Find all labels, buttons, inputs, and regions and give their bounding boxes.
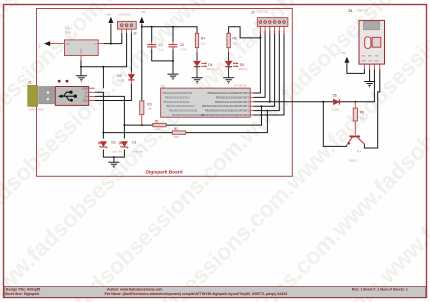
wire Z1 GND pin drop	[369, 70, 371, 82]
node D- / R2	[102, 132, 104, 134]
ground (D5)	[223, 78, 234, 84]
svg-text:Q1: Q1	[357, 149, 361, 153]
node zener ground	[113, 156, 115, 158]
ground (D4)	[192, 78, 203, 84]
svg-text:R1: R1	[155, 120, 159, 124]
svg-text:D2: D2	[112, 141, 116, 145]
wire U2 pin4 to J3 pin4	[254, 31, 275, 107]
svg-text:ATTINY85: ATTINY85	[234, 84, 247, 88]
node J3 pin3 riser	[269, 101, 271, 103]
svg-text:PB4/ADC2/CLKO/OC1B/PCINT4: PB4/ADC2/CLKO/OC1B/PCINT4	[215, 101, 250, 104]
module Z1 USB TTL	[349, 8, 385, 69]
svg-text:Vin: Vin	[107, 12, 112, 16]
wire U2 pin6 to J3 pin6	[254, 31, 285, 116]
svg-text:C2: C2	[180, 43, 184, 47]
svg-text:PB2/SCK/ADC1/USCK/SCL: PB2/SCK/ADC1/USCK/SCL	[166, 105, 196, 108]
wire J1 D+ to zener D1	[95, 96, 125, 138]
svg-text:331: 331	[201, 41, 206, 45]
svg-text:68R: 68R	[174, 135, 179, 139]
svg-text:PB2/SCK/ADC1/T0/USCK/SCL/INT0/: PB2/SCK/ADC1/T0/USCK/SCL/INT0/PCINT2	[202, 105, 250, 108]
IC U2 ATTINY85	[161, 84, 254, 118]
svg-text:Design Title: Attiny85: Design Title: Attiny85	[6, 288, 41, 292]
wire R3 bottom row to R1	[124, 124, 152, 126]
svg-text:D1: D1	[132, 141, 136, 145]
wire U1 output to J2 pin1	[104, 33, 122, 44]
svg-text:R3: R3	[147, 103, 151, 107]
capacitor C1	[147, 42, 164, 52]
svg-text:R6: R6	[360, 110, 364, 114]
svg-text:Digispark Board: Digispark Board	[146, 169, 183, 175]
svg-text:D4: D4	[208, 63, 212, 67]
node R3 bottom	[141, 124, 143, 126]
wire 5V rail horizontal to R4	[142, 27, 197, 34]
svg-text:Sheet Size: Digispark: Sheet Size: Digispark	[5, 292, 40, 296]
transistor Q1 BC547	[347, 136, 365, 163]
terminal Vin (top)	[107, 12, 114, 23]
svg-text:Author: www.fadsobsessions.com: Author: www.fadsobsessions.com	[107, 288, 162, 292]
wire 5V rail vertical to R3	[141, 24, 143, 101]
svg-text:331: 331	[233, 41, 238, 45]
wire Vin terminal drop	[110, 24, 112, 44]
diode D3	[117, 72, 135, 84]
wire R1 to U2 pin4 riser	[166, 106, 261, 125]
svg-text:Rev: 1 Sheet #: 1 Num of S: Rev: 1 Sheet #: 1 Num of Sheets: 1	[352, 288, 408, 292]
resistor R6	[353, 102, 365, 135]
wire R2 right to U2 pin5 riser	[186, 111, 267, 133]
resistor R2	[172, 127, 186, 139]
svg-text:U1: U1	[65, 26, 70, 30]
node C1 top	[151, 26, 153, 28]
svg-text:VCC: VCC	[83, 100, 88, 103]
svg-text:DIODE: DIODE	[117, 80, 125, 83]
svg-text:LED(red): LED(red)	[238, 68, 248, 71]
svg-text:RXD: RXD	[375, 61, 380, 63]
svg-text:10k: 10k	[360, 116, 365, 120]
Digispark Board sub-sheet frame	[37, 9, 293, 177]
resistor R4	[195, 33, 205, 61]
node 5V rail tap	[141, 26, 143, 28]
svg-text:CTS: CTS	[368, 61, 373, 63]
svg-text:File Name: (DartElectronics-bl: File Name: (DartElectronics-blankdevelop…	[105, 292, 288, 296]
svg-text:VI: VI	[94, 42, 97, 46]
svg-text:R5: R5	[233, 37, 237, 41]
wire J3 pin3 riser	[269, 31, 271, 102]
svg-text:BC547: BC547	[349, 159, 357, 163]
title block bar	[4, 287, 426, 298]
LED D5	[225, 61, 248, 78]
node ground rail at U1	[80, 66, 82, 68]
svg-text:PB3/ADC3/CLKI/XTAL1: PB3/ADC3/CLKI/XTAL1	[165, 96, 190, 99]
USB trident icon	[61, 92, 75, 100]
wire ground drop below zeners	[113, 157, 115, 162]
op-amp U1 voltage regulator 7805	[50, 26, 104, 61]
connector J3 CONN-6X1	[251, 9, 288, 34]
terminal 5V (top, J2)	[139, 10, 146, 23]
svg-text:DIODE: DIODE	[332, 109, 340, 112]
node R5 to J3 pin1	[259, 37, 261, 39]
svg-text:J1: J1	[28, 80, 32, 84]
svg-text:VO: VO	[66, 42, 70, 46]
svg-text:D5: D5	[240, 63, 244, 67]
svg-text:Zener 3v6: Zener 3v6	[132, 150, 143, 153]
svg-text:U2: U2	[161, 85, 166, 89]
wire node to Q1 emitter	[323, 102, 347, 147]
svg-text:0.1u: 0.1u	[159, 47, 165, 51]
terminal 5V (Z1)	[342, 51, 350, 63]
wire Z1 5V pin to terminal	[347, 63, 365, 73]
resistor R1	[153, 120, 166, 132]
svg-text:68R: 68R	[155, 128, 160, 132]
connector J1 USB CONN	[28, 80, 95, 112]
svg-text:GND: GND	[362, 61, 367, 63]
node D+ / R1	[123, 124, 125, 126]
svg-text:PB0/MOSI/DI/SDA/AIN0/OC0A/AREF: PB0/MOSI/DI/SDA/AIN0/OC0A/AREF/PCINT0	[201, 114, 250, 117]
wire C2 branches	[172, 27, 174, 74]
svg-text:PB5/ADC0/AIN0/OC1A/RESET/PCINT: PB5/ADC0/AIN0/OC1A/RESET/PCINT5	[207, 92, 249, 95]
node R1 riser	[261, 105, 263, 107]
wire zener bottoms rail	[103, 150, 124, 158]
wire D3 to J1 VCC pin	[95, 84, 132, 101]
wire J1 D- to zener D2	[95, 92, 104, 138]
svg-text:1k5: 1k5	[147, 107, 152, 111]
svg-text:PB5/ADC0/AIN0/RESET/dW: PB5/ADC0/AIN0/RESET/dW	[163, 92, 193, 95]
wire Q1 collector to Z1 RX	[364, 70, 379, 149]
svg-text:LED(green): LED(green)	[206, 68, 219, 71]
svg-text:PB3/ADC3/CLKI/OC1B/PCINT3: PB3/ADC3/CLKI/OC1B/PCINT3	[216, 96, 250, 99]
svg-text:USB TTL: USB TTL	[357, 8, 369, 12]
resistor R3	[140, 101, 152, 125]
resistor R5	[227, 33, 237, 61]
svg-text:D6: D6	[333, 93, 337, 97]
node R6 top	[354, 101, 356, 103]
node Vin/U1 junction	[110, 43, 112, 45]
wire U2 pin1 to J3 pin1	[254, 31, 261, 94]
svg-text:7805: 7805	[65, 30, 72, 34]
svg-text:D-: D-	[85, 91, 88, 94]
svg-text:PB0/MOSI/DI/SDA/AIN0/OC0A: PB0/MOSI/DI/SDA/AIN0/OC0A	[172, 114, 205, 117]
svg-text:5v: 5v	[38, 44, 42, 48]
svg-text:J2: J2	[133, 31, 137, 35]
svg-text:Z1: Z1	[349, 9, 353, 13]
wire U1 ground drop	[80, 61, 82, 76]
svg-text:GND: GND	[82, 87, 88, 90]
svg-text:C1: C1	[159, 43, 163, 47]
zener diode D1	[119, 141, 143, 154]
svg-text:R2: R2	[174, 127, 178, 131]
svg-text:PB1/MISO/DO/AIN1/OC0B/OC1A/PCI: PB1/MISO/DO/AIN1/OC0B/OC1A/PCINT1	[205, 110, 250, 113]
wire U2 pin2 to J3 pin2	[254, 31, 266, 98]
svg-text:Zener 3v6: Zener 3v6	[111, 150, 122, 153]
svg-text:TXD: TXD	[375, 56, 380, 58]
svg-text:GND: GND	[80, 48, 83, 54]
ground (U1)	[76, 76, 87, 82]
capacitor C2	[169, 42, 187, 52]
ground (zeners)	[108, 162, 119, 168]
node R2 riser	[266, 110, 268, 112]
ground (Z1)	[364, 82, 375, 88]
connector J2 CONN-3X1	[117, 12, 136, 35]
node Q1 branch	[322, 101, 324, 103]
wire J1 GND pin riser	[102, 67, 104, 88]
svg-text:USB CONN: USB CONN	[28, 107, 44, 111]
svg-text:PB4/ADC2/CLKO/XTAL2: PB4/ADC2/CLKO/XTAL2	[164, 101, 191, 104]
wire J2 pin3 to D3	[130, 33, 132, 72]
wire U2 pin3 long row to Z1 TX	[254, 70, 375, 102]
wire R5 top to J3 pin1 net	[229, 27, 261, 38]
wire C1 branches	[152, 27, 173, 61]
svg-text:PB1/MISO/DO/AIN1/OC0B: PB1/MISO/DO/AIN1/OC0B	[169, 110, 197, 113]
svg-text:D3: D3	[118, 74, 122, 78]
wire ground rail U1 to J1 GND	[81, 66, 103, 68]
svg-text:J3: J3	[251, 11, 255, 15]
zener diode D2	[98, 141, 123, 154]
node ground rail at J1	[102, 66, 104, 68]
terminal 5V (left of U1)	[38, 41, 51, 47]
LED D4	[194, 61, 219, 78]
ground (C2)	[168, 74, 179, 80]
svg-text:CONN-6X1: CONN-6X1	[256, 9, 270, 13]
wire R2 left to D- net	[103, 132, 171, 134]
node C2 top	[172, 26, 174, 28]
svg-text:R4: R4	[201, 37, 205, 41]
svg-text:CONN-3X1: CONN-3X1	[118, 12, 132, 16]
wire U2 pin5 to J3 pin5	[254, 31, 280, 111]
wire J2 pin2 to ground rail	[103, 33, 126, 67]
node C1/C2 bottom	[172, 60, 174, 62]
svg-text:4.7uF: 4.7uF	[180, 47, 187, 51]
diode D6	[332, 93, 340, 111]
